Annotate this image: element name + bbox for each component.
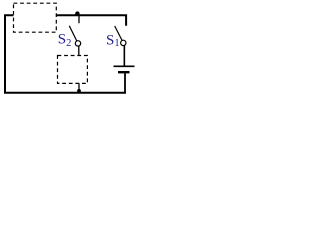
junction node B (bottom) — [77, 89, 81, 93]
switch S2 stub from node A — [78, 16, 80, 24]
switch S2 blade (open) — [69, 26, 77, 41]
switch S1 pivot terminal circle — [121, 40, 126, 45]
wire: S2 terminal to dashed box 2 — [78, 46, 80, 56]
junction node A (top) — [75, 11, 79, 15]
wire: top-left connector, left side, bottom side of loop — [5, 15, 126, 93]
battery long plate (+) — [114, 65, 135, 67]
switch S1 blade (open) — [115, 26, 122, 41]
switch S2 pivot terminal circle — [75, 41, 80, 46]
wire: dashed box 2 to bottom wire — [78, 83, 80, 91]
wire: battery to bottom-right corner — [124, 73, 126, 93]
battery short plate (-) — [118, 71, 130, 73]
dashed box component 2 (middle) — [58, 56, 88, 84]
wire: top side from box 1 to top-right corner, down to switch S1 stub — [56, 15, 126, 26]
dashed box component 1 (top-left) — [14, 3, 57, 32]
wire: S1 terminal down to battery — [123, 46, 125, 67]
